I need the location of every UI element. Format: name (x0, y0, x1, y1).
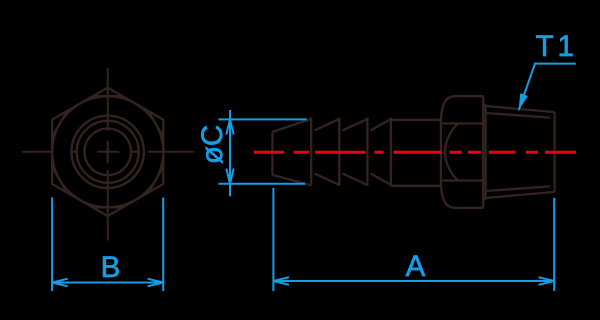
dimension A extension line right (553, 198, 555, 291)
barb tooth 2 top (314, 119, 339, 131)
svg-text:B: B (101, 251, 121, 284)
bore circle outer (72, 116, 144, 188)
dimension B extension line left (51, 198, 53, 292)
barb tooth 2 bottom (314, 173, 339, 185)
thread start chamfer top (483, 104, 486, 106)
barb tooth 3 top (342, 119, 367, 131)
dimension B line (52, 282, 163, 284)
thread start chamfer bottom (483, 198, 486, 200)
thread crest top (486, 106, 555, 112)
hex top-left chamfer arc (441, 96, 455, 123)
hex right edge (482, 96, 484, 208)
bore circle middle (77, 121, 139, 183)
bore circle inner (84, 129, 131, 176)
horizontal centerline dashes (22, 151, 194, 153)
hex bottom-left chamfer arc (441, 181, 455, 208)
hex face boundary lower (441, 179, 483, 181)
thread crest bottom (486, 192, 555, 198)
barb face 2 (338, 118, 340, 186)
thread root bottom (487, 186, 551, 191)
dimension C arrow up (226, 119, 233, 134)
barb tooth 3 bottom (342, 173, 367, 185)
barb face 1 (310, 118, 312, 186)
cylinder top (391, 119, 441, 121)
center cross (97, 141, 119, 164)
svg-text:T1: T1 (536, 30, 578, 63)
dimension C extension line bottom (218, 183, 305, 185)
dimension C line (229, 110, 231, 196)
hex center face chamfer arc (445, 124, 458, 181)
hex face boundary upper (441, 122, 483, 124)
tip cone bottom (272, 175, 311, 186)
barb tooth 4 bottom (371, 173, 391, 185)
dimension C arrow down (226, 169, 233, 184)
thread root top (487, 113, 551, 118)
red centerline (side view) (254, 151, 576, 154)
dimension C extension line top (218, 118, 306, 120)
hex bottom edge (455, 207, 484, 209)
barb face 3 (366, 118, 368, 186)
cylinder bottom (391, 185, 441, 187)
chamfer circle (52, 96, 163, 207)
svg-text:A: A (406, 250, 426, 283)
T1 leader line (519, 64, 576, 111)
hexagon nut outline (end view) (52, 88, 163, 216)
barb tooth 4 top (371, 119, 391, 131)
dimension A extension line left (272, 188, 274, 291)
barb tip face (271, 132, 273, 175)
svg-text:øC: øC (196, 125, 229, 164)
dimension B extension line right (162, 198, 164, 292)
thread start face (484, 105, 486, 200)
barb face 4 (390, 118, 392, 186)
hex top edge (455, 95, 484, 97)
thread end face (553, 112, 555, 192)
tip cone top (272, 119, 311, 132)
corner chamfer chords (52, 96, 163, 207)
dimension A line (273, 280, 554, 282)
vertical centerline dashes (107, 68, 109, 240)
hex left edge (side view) (440, 124, 442, 181)
